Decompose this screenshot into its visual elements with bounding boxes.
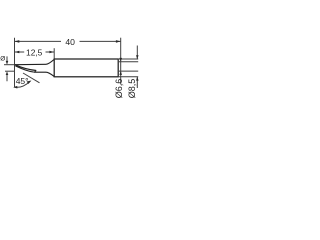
tip top edge (15, 63, 46, 65)
tip bevel edge 2 (15, 66, 33, 72)
bevel end cap (34, 71, 36, 73)
dimension 12,5 arrowheads (15, 51, 20, 54)
extension line left at tip point (14, 38, 16, 88)
svg-text:Ø6,6: Ø6,6 (114, 79, 124, 99)
45 deg arc end arrowhead (27, 81, 32, 85)
svg-text:40: 40 (65, 37, 75, 47)
diameter 6,6 arrowheads (119, 58, 122, 62)
dimension 12,5 line (15, 51, 55, 53)
diameter 8,5 dimension line (136, 46, 138, 60)
sleeve cylinder (54, 59, 118, 77)
45 deg arc (14, 81, 30, 87)
dimension 40 line (15, 40, 121, 42)
tip diameter extension line B (5, 70, 15, 72)
tip bevel edge 1 (15, 65, 36, 71)
45 deg leader line (23, 73, 40, 83)
tip bottom edge (34, 71, 46, 73)
svg-text:12,5: 12,5 (26, 48, 43, 58)
tip diameter upper arrow (6, 56, 8, 61)
right extension line inner top (119, 61, 138, 63)
tip diameter extension line A (4, 64, 15, 66)
flare to sleeve (46, 59, 54, 76)
dimension 40 arrowheads (15, 40, 20, 43)
right extension line outer top (119, 58, 138, 60)
tip diameter lower arrow (6, 75, 8, 81)
diameter 6,6 dimension line (shared with 40 extension) (120, 38, 122, 85)
svg-text:Ø: Ø (0, 56, 5, 63)
45 deg arc start arrowhead (13, 86, 17, 89)
extension line at cylinder front for 12,5 (53, 48, 55, 59)
diameter 8,5 arrowheads (136, 55, 139, 59)
right extension line outer bottom (119, 76, 138, 78)
right extension line inner bottom (119, 70, 138, 72)
svg-text:Ø8,5: Ø8,5 (127, 79, 137, 99)
